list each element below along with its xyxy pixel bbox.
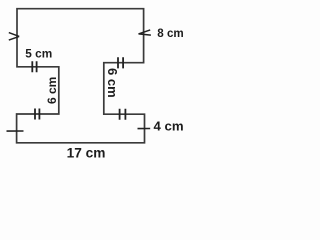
svg-text:4 cm: 4 cm	[154, 119, 184, 134]
double hash on bottom-right segment	[120, 109, 126, 120]
I-beam shaped polygon outline	[17, 9, 145, 143]
svg-text:5 cm: 5 cm	[25, 47, 52, 61]
single tick on bottom-left vertical	[7, 130, 24, 132]
single tick on bottom-right vertical (4cm)	[138, 128, 151, 130]
svg-text:6 cm: 6 cm	[105, 68, 120, 98]
svg-text:17 cm: 17 cm	[67, 145, 106, 160]
svg-text:8 cm: 8 cm	[157, 27, 183, 40]
double hash on 5cm top-left segment	[32, 61, 36, 72]
svg-text:6 cm: 6 cm	[45, 77, 59, 104]
double hash on top-right segment	[118, 57, 123, 68]
double hash on bottom-left segment	[35, 109, 39, 120]
arrow tick on top-right vertical	[139, 30, 151, 35]
arrow tick on top-left vertical	[9, 33, 19, 41]
